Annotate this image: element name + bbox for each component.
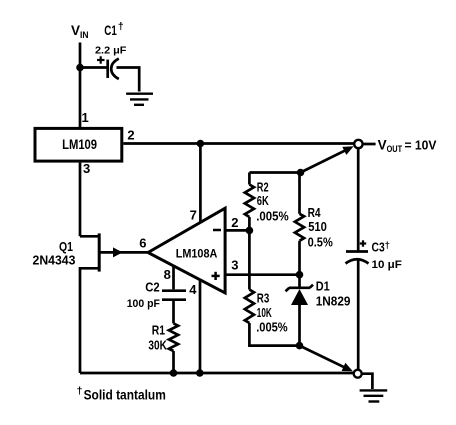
svg-text:LM108A: LM108A [176,248,218,260]
svg-text:†: † [77,385,83,397]
svg-text:.005%: .005% [256,319,288,334]
svg-text:C2: C2 [145,280,160,295]
svg-text:100 pF: 100 pF [127,298,161,310]
svg-text:OUT: OUT [387,143,403,154]
svg-text:.005%: .005% [256,209,289,224]
svg-text:†: † [385,240,390,251]
svg-text:3: 3 [231,257,238,272]
svg-text:6: 6 [139,236,146,251]
svg-text:Q1: Q1 [59,239,73,254]
svg-text:2N4343: 2N4343 [33,253,76,267]
svg-text:10 μF: 10 μF [372,259,402,271]
svg-text:2.2 μF: 2.2 μF [95,46,126,57]
svg-text:2: 2 [231,215,238,230]
svg-text:1: 1 [82,110,89,125]
svg-text:10K: 10K [257,306,272,320]
svg-text:= 10V: = 10V [405,138,438,152]
svg-text:2: 2 [127,128,134,143]
svg-text:V: V [71,23,80,38]
svg-text:7: 7 [190,207,197,222]
svg-text:D1: D1 [316,279,330,294]
svg-text:0.5%: 0.5% [308,234,333,249]
svg-text:4: 4 [189,282,197,297]
svg-text:R1: R1 [152,323,166,337]
svg-text:†: † [118,21,124,33]
svg-text:Solid tantalum: Solid tantalum [84,387,166,403]
svg-text:510: 510 [308,219,327,234]
svg-text:30K: 30K [148,338,167,353]
svg-text:8: 8 [164,267,171,282]
svg-text:IN: IN [80,29,88,40]
svg-text:C1: C1 [104,24,117,39]
svg-text:6K: 6K [257,195,270,209]
svg-text:R2: R2 [257,181,269,195]
svg-text:LM109: LM109 [62,137,97,152]
svg-text:3: 3 [83,161,90,176]
svg-text:R3: R3 [257,292,269,306]
svg-text:V: V [378,138,387,153]
svg-text:1N829: 1N829 [316,294,351,309]
svg-text:C3: C3 [372,240,386,254]
